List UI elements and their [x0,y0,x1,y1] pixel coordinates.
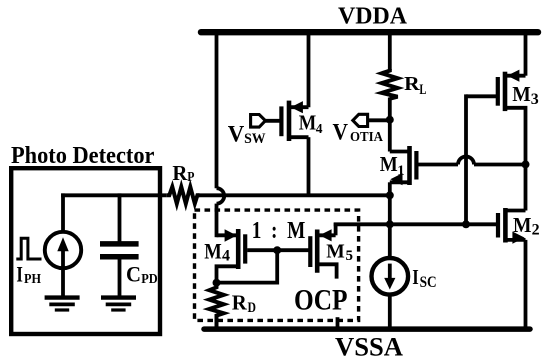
wire gate bus vertical M3-M2 [464,94,468,224]
wire CPD to ground [118,257,122,297]
svg-text:C: C [126,261,141,286]
svg-text:Photo Detector: Photo Detector [11,143,155,169]
wire VDDA to M3 [524,30,528,76]
label RD [232,291,256,317]
label ISC [412,265,436,291]
svg-text:OCP: OCP [294,284,348,316]
transistor M5 channel bar [315,230,320,273]
svg-text:M: M [326,241,345,263]
svg-text:SC: SC [420,274,437,291]
svg-text:4: 4 [316,121,323,136]
label M4 [299,111,323,137]
svg-text:1: 1 [397,163,405,179]
transistor M4 OCP gate bar [243,234,247,263]
wire M5 drain net [334,222,497,226]
label VSW [228,121,266,147]
svg-text:PH: PH [24,272,41,287]
transistor M4 OCP drain lead with arrow [217,229,237,241]
ground under CPD [101,298,136,310]
transistor M3 gate lead [466,94,498,98]
wire VDDA to RL [388,30,392,70]
svg-text:R: R [172,161,188,185]
label RP [172,161,194,185]
transistor M1 gate bar [414,151,418,180]
svg-text:D: D [248,300,257,316]
input pulse symbol [16,238,41,259]
transistor M4 OCP channel bar [236,229,241,269]
svg-text:M: M [380,152,398,176]
node mirror drain junction dot [522,160,530,168]
wire node A to ISC [388,195,392,258]
ground under IPH [45,298,80,310]
transistor M1 drain top lead [390,150,410,154]
svg-text:P: P [187,169,194,184]
wire ISC to VSSA [388,295,392,330]
label M5 [326,241,353,264]
svg-text:5: 5 [346,248,354,264]
svg-text:I: I [412,265,419,289]
wire M5 source tick to VSSA [336,317,340,329]
svg-text:M: M [513,213,532,237]
node A / M1 junction dot [386,191,394,199]
OCP dashed enclosure [195,210,359,320]
wire VDDA to M4 source [307,30,311,107]
resistor RP [167,187,200,204]
node ISC top junction dot [386,220,394,228]
transistor M5 gate bar [308,236,312,267]
transistor M2 source lead with arrow [505,232,525,330]
wire photodiode top [61,193,65,231]
transistor M4 channel bar [287,101,292,141]
transistor M3 drain lead [505,108,526,165]
transistor M5 source lead stub [317,264,336,278]
svg-text:R: R [232,291,248,315]
svg-text:VDDA: VDDA [338,3,407,30]
svg-text:PD: PD [141,272,158,287]
svg-text:4: 4 [222,247,230,264]
transistor M3 gate bar [496,77,500,106]
wire RL to VOTIA node [388,98,392,152]
VDDA power rail [201,29,538,35]
capacitor CPD [100,244,139,257]
label M2 [513,213,540,239]
wire IPH to ground [61,268,65,297]
node M4 source / RD junction dot [213,279,221,287]
pin VOTIA [353,114,387,126]
svg-text:V: V [228,121,245,147]
svg-text:M: M [204,239,222,264]
transistor M3 channel bar [503,72,508,111]
svg-text:L: L [419,82,426,98]
wire VDDA to OCP M4 drain with crossover hop [217,30,225,237]
resistor RD [209,283,223,329]
current source ISC [372,258,409,295]
svg-text:2: 2 [532,222,540,239]
transistor M2 channel bar [503,208,508,243]
photo detector enclosure box [11,168,160,334]
svg-text:VSSA: VSSA [335,332,403,362]
node M2 gate junction dot [462,220,470,228]
label M4 OCP [204,239,230,265]
resistor RL [382,69,398,99]
wire node A horizontal [198,193,391,197]
svg-text:SW: SW [244,131,266,147]
transistor M1 channel bar [407,146,412,185]
net label VDDA [338,3,407,30]
label M3 [512,82,539,108]
VSSA power rail [204,326,530,332]
label VOTIA [333,120,384,145]
node VOTIA junction dot [386,116,394,124]
transistor M3 source lead with arrow [505,70,526,82]
svg-text:V: V [333,120,349,145]
net label VSSA [335,332,403,362]
transistor M4 drain lead [289,135,309,139]
transistor M2 gate bar [496,213,500,238]
svg-text:M: M [299,111,317,135]
wire photodetector output [61,193,167,197]
label CPD [126,261,158,287]
current source IPH [45,232,81,268]
svg-text:M: M [512,82,531,106]
svg-text:I: I [16,261,23,286]
transistor M1 source lead with arrow [390,173,410,195]
svg-text:OTIA: OTIA [350,130,384,145]
transistor M4 source lead with arrow [289,101,309,113]
node gate junction dot [273,246,281,254]
transistor M5 drain lead with arrow [317,223,335,242]
svg-text:R: R [404,73,420,95]
svg-text:3: 3 [531,91,539,108]
wire CPD top [118,193,122,243]
transistor M4 OCP source lead [217,266,239,282]
transistor M2 drain lead [505,209,525,213]
label ratio 1 : M [252,218,305,244]
wire diode connection gate to source node [217,250,278,282]
wire M1 gate to mirror node with crossover hop [418,157,525,165]
label M1 [380,152,405,179]
label RL [404,73,427,98]
label OCP [294,284,348,316]
wire gate bus M4-M5 [247,248,310,252]
wire M4 drain to node A [307,137,311,195]
wire mirror node to M2 drain [524,164,528,210]
label Photo Detector [11,143,155,169]
pin VSW [251,115,280,128]
transistor M4 gate bar [279,106,283,136]
svg-text:1 : M: 1 : M [252,218,305,244]
label IPH [16,261,41,287]
